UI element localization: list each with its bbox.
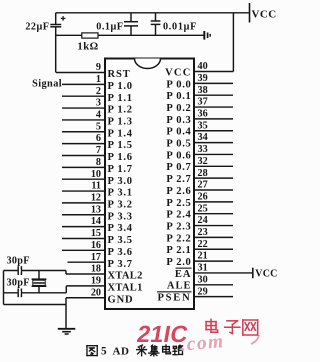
svg-text:22: 22 (198, 239, 208, 250)
svg-text:P 0.4: P 0.4 (166, 127, 191, 138)
svg-text:VCC: VCC (252, 9, 277, 21)
svg-text:Signal: Signal (32, 79, 62, 90)
svg-text:0.1μF: 0.1μF (96, 22, 123, 33)
svg-text:36: 36 (198, 109, 208, 120)
svg-text:6: 6 (96, 133, 101, 144)
svg-text:P 3.2: P 3.2 (108, 200, 133, 211)
svg-text:PSEN: PSEN (157, 293, 191, 304)
svg-text:VCC: VCC (165, 67, 191, 78)
svg-text:P 0.2: P 0.2 (166, 103, 191, 114)
svg-text:GND: GND (108, 294, 134, 305)
svg-text:.com: .com (180, 331, 226, 356)
svg-text:P 2.7: P 2.7 (166, 174, 191, 185)
svg-text:22μF: 22μF (25, 21, 49, 32)
svg-text:ALE: ALE (167, 281, 192, 292)
svg-text:5: 5 (101, 346, 107, 358)
svg-text:P 0.7: P 0.7 (166, 162, 191, 173)
svg-text:3: 3 (96, 98, 101, 109)
svg-text:33: 33 (198, 144, 208, 155)
svg-text:32: 32 (198, 156, 208, 167)
svg-text:13: 13 (91, 204, 101, 215)
svg-text:P 0.6: P 0.6 (166, 150, 191, 161)
svg-text:P 3.4: P 3.4 (108, 223, 133, 234)
svg-text:XTAL2: XTAL2 (108, 271, 143, 282)
svg-text:P 3.3: P 3.3 (108, 211, 133, 222)
svg-text:P 1.4: P 1.4 (108, 128, 133, 139)
svg-text:P 3.6: P 3.6 (108, 247, 133, 258)
svg-text:15: 15 (91, 228, 101, 239)
svg-text:P 3.5: P 3.5 (108, 235, 133, 246)
svg-text:RST: RST (108, 69, 131, 80)
svg-text:34: 34 (198, 132, 208, 143)
svg-text:12: 12 (91, 193, 101, 204)
svg-text:17: 17 (91, 252, 101, 263)
svg-text:P 0.0: P 0.0 (166, 79, 191, 90)
svg-text:0.01μF: 0.01μF (163, 21, 197, 32)
svg-text:28: 28 (198, 168, 208, 179)
svg-text:8: 8 (96, 157, 101, 168)
svg-text:P 2.4: P 2.4 (166, 210, 191, 221)
svg-text:2: 2 (96, 86, 101, 97)
svg-text:40: 40 (198, 61, 208, 72)
svg-text:21: 21 (198, 251, 208, 262)
svg-text:16: 16 (91, 240, 101, 251)
svg-text:4: 4 (96, 110, 101, 121)
svg-text:5: 5 (96, 121, 101, 132)
svg-text:VCC: VCC (255, 268, 277, 279)
svg-text:EA: EA (175, 269, 192, 280)
svg-text:P 1.0: P 1.0 (108, 81, 133, 92)
svg-text:P 1.6: P 1.6 (108, 152, 133, 163)
svg-text:29: 29 (198, 286, 208, 297)
svg-text:P 2.6: P 2.6 (166, 186, 191, 197)
svg-text:P 2.2: P 2.2 (166, 233, 191, 244)
svg-text:14: 14 (91, 216, 101, 227)
svg-text:P 1.2: P 1.2 (108, 105, 133, 116)
svg-text:P 3.0: P 3.0 (108, 176, 133, 187)
svg-text:P 3.7: P 3.7 (108, 259, 133, 270)
svg-text:39: 39 (198, 73, 208, 84)
svg-text:26: 26 (198, 191, 208, 202)
svg-text:P 3.1: P 3.1 (108, 188, 133, 199)
svg-text:18: 18 (91, 264, 101, 275)
svg-text:P 2.1: P 2.1 (166, 245, 191, 256)
svg-text:19: 19 (91, 275, 101, 286)
svg-text:1kΩ: 1kΩ (77, 42, 98, 53)
svg-text:37: 37 (198, 97, 208, 108)
svg-text:XTAL1: XTAL1 (108, 282, 143, 293)
svg-text:AD: AD (113, 345, 130, 357)
svg-text:23: 23 (198, 227, 208, 238)
svg-text:11: 11 (91, 181, 101, 192)
svg-text:P 2.3: P 2.3 (166, 221, 191, 232)
svg-text:9: 9 (96, 62, 101, 73)
svg-text:30pF: 30pF (7, 255, 30, 266)
svg-text:P 0.3: P 0.3 (166, 115, 191, 126)
svg-text:30pF: 30pF (7, 278, 30, 289)
svg-text:P 1.7: P 1.7 (108, 164, 133, 175)
svg-text:38: 38 (198, 85, 208, 96)
svg-text:24: 24 (198, 215, 208, 226)
svg-text:P 1.5: P 1.5 (108, 140, 133, 151)
svg-text:P 0.1: P 0.1 (166, 91, 191, 102)
svg-text:35: 35 (198, 120, 208, 131)
svg-text:30: 30 (198, 274, 208, 285)
svg-text:31: 31 (198, 263, 208, 274)
svg-text:10: 10 (91, 169, 101, 180)
svg-text:P 2.5: P 2.5 (166, 198, 191, 209)
svg-text:7: 7 (96, 145, 101, 156)
svg-text:25: 25 (198, 203, 208, 214)
svg-text:1: 1 (96, 74, 101, 85)
svg-text:P 2.0: P 2.0 (166, 257, 191, 268)
svg-text:P 1.1: P 1.1 (108, 93, 133, 104)
svg-text:27: 27 (198, 180, 208, 191)
svg-text:20: 20 (91, 287, 101, 298)
svg-text:P 1.3: P 1.3 (108, 117, 133, 128)
svg-text:P 0.5: P 0.5 (166, 139, 191, 150)
